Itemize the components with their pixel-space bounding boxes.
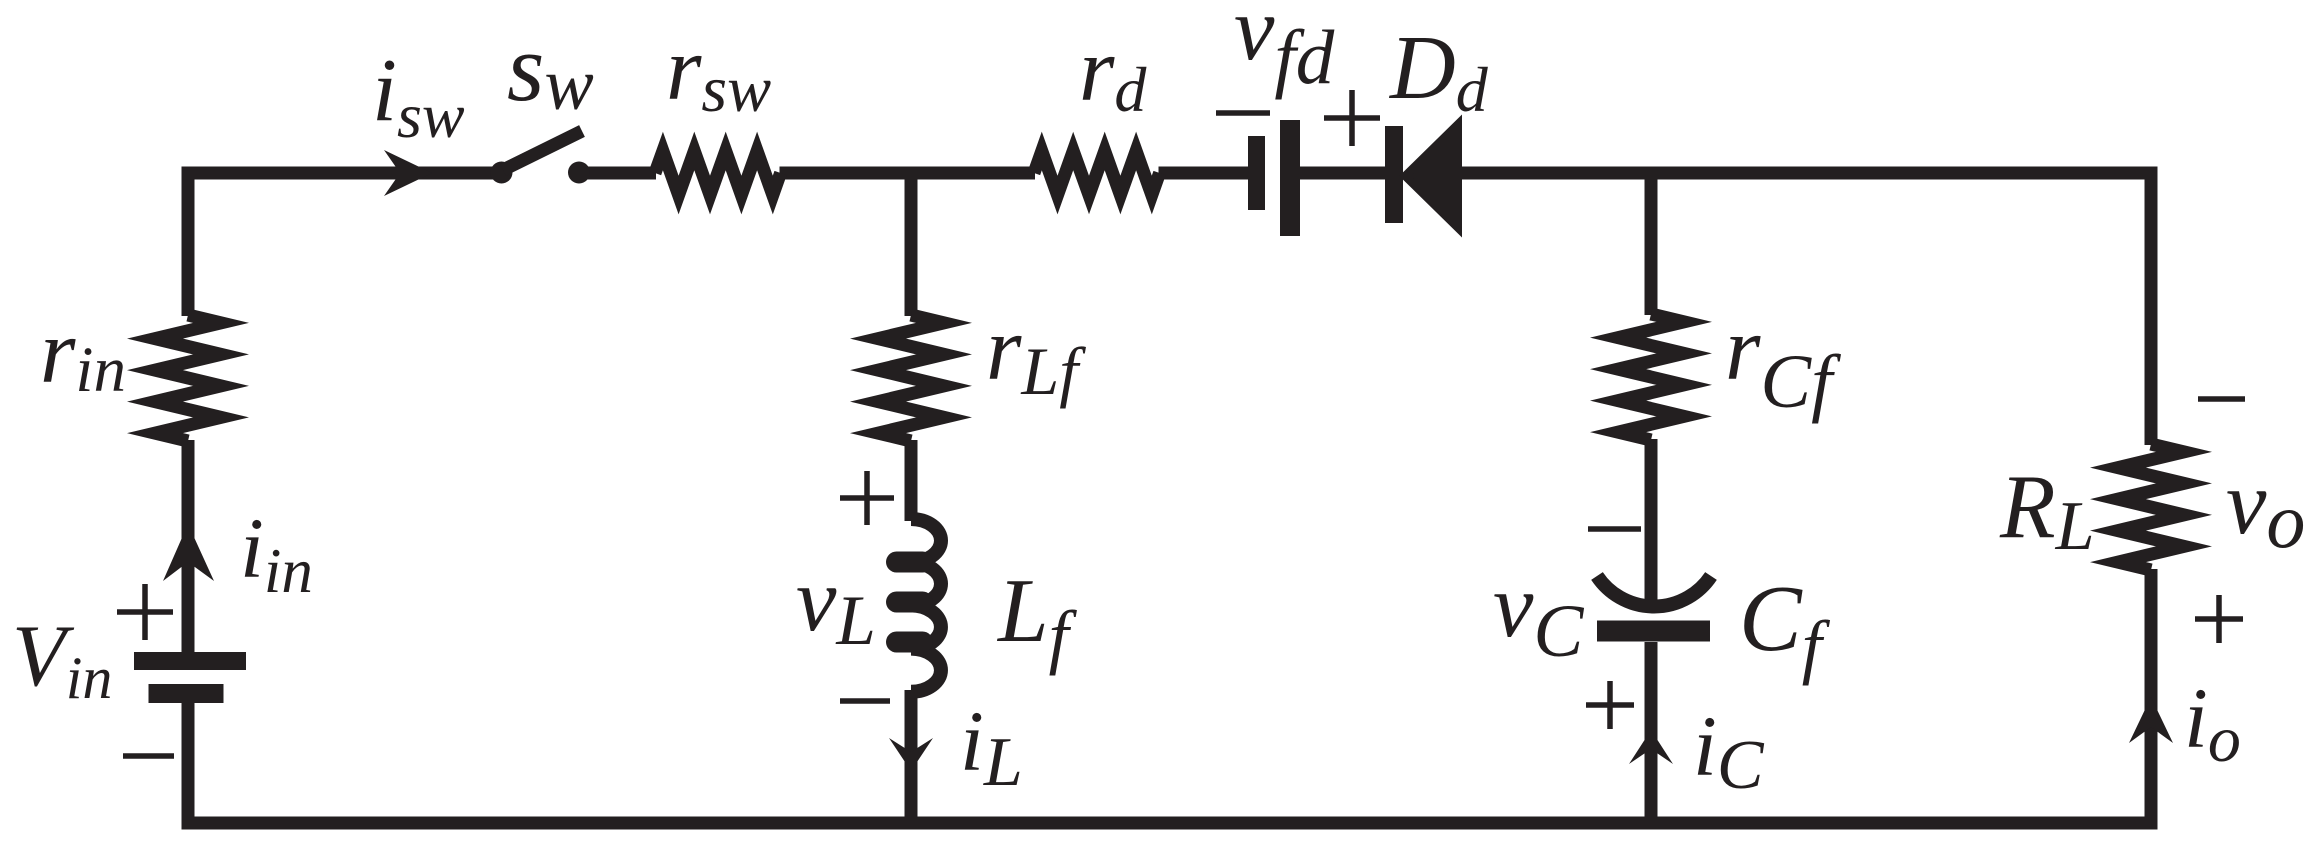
wire top rail battery to diode: [1299, 167, 1386, 180]
wire middle branch upper: [905, 173, 918, 316]
diode D_d cathode bar: [1385, 126, 1403, 223]
minus sign v_C: [1588, 526, 1641, 532]
wire left rail below battery: [182, 703, 195, 823]
wire r_Cf branch below capacitor: [1645, 642, 1658, 823]
battery V_in long plate: [134, 652, 246, 670]
wire left rail between r_in and battery: [182, 440, 195, 657]
capacitor C_f curved plate: [1597, 576, 1711, 607]
wire top rail dot2 to r_sw: [579, 167, 656, 180]
wire top rail left segment: [182, 167, 495, 180]
wire right rail upper: [2145, 167, 2158, 446]
minus sign v_L: [840, 698, 890, 704]
minus sign v_fd: [1216, 110, 1270, 116]
wire right rail lower: [2145, 569, 2158, 830]
minus sign v_o: [2198, 396, 2245, 402]
battery V_in short plate: [149, 684, 224, 703]
arrow i_o: [2129, 697, 2173, 743]
wire top rail r_d to battery: [1159, 167, 1250, 180]
wire middle branch between r_Lf and L_f: [905, 440, 918, 521]
inductor L_f loop bump 1: [886, 552, 933, 573]
plus sign V_in: [117, 584, 173, 640]
capacitor C_f flat plate: [1597, 621, 1710, 642]
resistor r_Cf: [1618, 314, 1684, 440]
plus sign v_fd: [1324, 90, 1380, 146]
inductor L_f coil: [911, 519, 941, 692]
arrow i_sw: [384, 150, 432, 196]
wire left rail upper: [182, 167, 195, 317]
diode D_d triangle: [1405, 124, 1458, 228]
resistor r_sw: [655, 151, 781, 195]
arrow i_in: [163, 524, 214, 581]
inductor L_f loop bump 3: [886, 632, 933, 653]
inductor L_f loop bump 2: [886, 592, 933, 613]
minus sign V_in: [123, 753, 174, 759]
resistor r_Lf: [878, 315, 944, 441]
arrow i_C: [1629, 730, 1673, 764]
switch s_w dot 1: [491, 162, 513, 184]
resistor r_in: [155, 315, 221, 441]
battery v_fd short plate (minus): [1248, 136, 1265, 210]
wire top rail diode to top-right corner: [1459, 167, 2158, 180]
resistor R_L: [2118, 444, 2184, 570]
switch s_w lever: [503, 131, 582, 170]
resistor r_d: [1034, 151, 1160, 195]
plus sign v_L: [840, 471, 894, 525]
wire r_Cf branch upper: [1645, 173, 1658, 315]
plus sign v_o: [2195, 595, 2243, 643]
wire top rail r_sw to r_d: [780, 167, 1036, 180]
switch s_w dot 2: [568, 162, 590, 184]
battery v_fd tall plate (plus): [1280, 120, 1300, 236]
wire middle branch below L_f: [905, 690, 918, 823]
plus sign v_C: [1586, 681, 1634, 729]
wire r_Cf branch between resistor and capacitor: [1645, 439, 1658, 606]
arrow i_L: [889, 738, 933, 771]
wire bottom rail: [182, 817, 2158, 830]
